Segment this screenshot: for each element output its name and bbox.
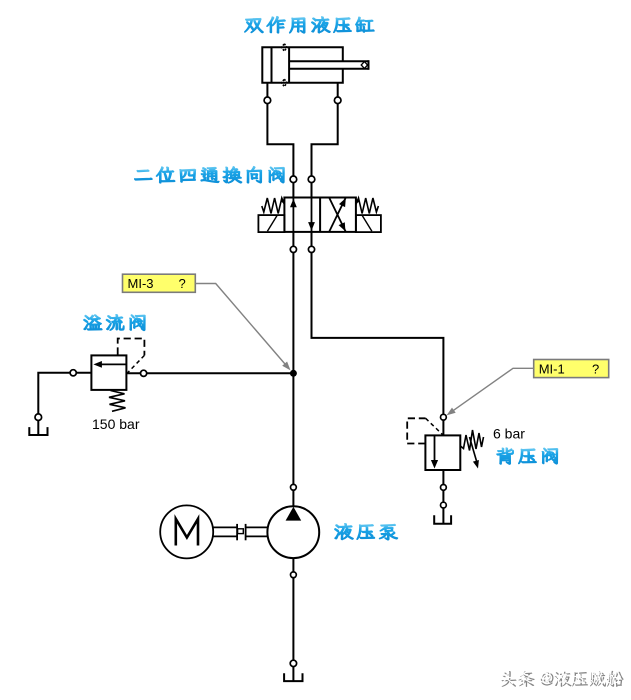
MI-1 measurement callout box <box>534 360 609 378</box>
wire: cylinder left port to valve port A <box>267 83 293 198</box>
wire: relief valve inlet from junction <box>126 372 293 374</box>
valve left position: parallel arrows <box>292 198 294 232</box>
relief valve pilot line (dashed) <box>118 339 145 356</box>
back-pressure pilot line (dashed) <box>407 418 425 443</box>
label: back-pressure valve 背压阀 <box>497 448 558 465</box>
cylinder anchor diamond top <box>282 44 287 51</box>
cylinder rod end diamond <box>361 62 367 69</box>
wire: relief valve outlet to tank <box>38 373 91 435</box>
label: relief valve 溢流阀 <box>84 314 146 330</box>
pump: hydraulic pump circle <box>267 506 319 558</box>
port circle back-pressure outlet <box>441 485 447 491</box>
port circle back-pressure inlet <box>441 414 447 420</box>
port circle relief right <box>141 370 147 376</box>
tank symbol left <box>29 427 47 435</box>
port circle pump inlet top <box>291 484 297 490</box>
port circle tank left <box>35 414 42 421</box>
svg-text:?: ? <box>179 276 186 291</box>
MI-1 leader line <box>450 368 534 413</box>
port circle valve A <box>290 176 297 183</box>
svg-text:150 bar: 150 bar <box>92 416 140 432</box>
shaft coupling motor-pump <box>213 524 267 540</box>
svg-text:MI-1: MI-1 <box>539 361 565 376</box>
valve right return spring <box>356 198 379 214</box>
port circle cylinder left <box>264 97 271 104</box>
port circle valve P <box>290 246 296 252</box>
pump flow triangle <box>286 507 302 521</box>
port circle tank bottom <box>290 660 296 666</box>
relief valve flow arrow <box>98 363 126 365</box>
tank symbol bottom <box>284 673 302 681</box>
wire: cylinder right port to valve port B <box>312 83 338 198</box>
wire: into back-pressure valve <box>442 420 444 435</box>
MI-3 leader line <box>195 284 288 368</box>
label: pump 液压泵 <box>335 523 398 540</box>
port circle relief left <box>70 370 76 376</box>
back-pressure valve spring <box>460 430 483 451</box>
motor letter M <box>176 519 198 546</box>
cylinder: double-acting hydraulic cylinder <box>262 47 368 83</box>
valve left solenoid box <box>258 215 284 232</box>
cylinder anchor diamond bottom <box>282 79 287 86</box>
valve: 4/2 directional valve body <box>284 198 356 232</box>
port circle valve B <box>308 176 315 183</box>
port circle cylinder right <box>334 97 341 104</box>
svg-text:6 bar: 6 bar <box>493 426 525 442</box>
port circle tank right <box>441 502 447 508</box>
port circle valve T <box>308 246 314 252</box>
wire: valve P port down to pump <box>292 232 294 507</box>
svg-text:MI-3: MI-3 <box>128 276 154 291</box>
valve right solenoid box <box>356 215 381 232</box>
svg-text:?: ? <box>592 361 599 376</box>
wire: back-pressure outlet to tank <box>442 470 444 524</box>
MI-3 measurement callout box <box>123 274 196 292</box>
back-pressure spring adjust arrow <box>470 437 477 461</box>
label: valve title 二位四通换向阀 <box>135 166 285 183</box>
valve left return spring <box>262 198 285 214</box>
back-pressure valve body <box>425 435 460 470</box>
label: cylinder title 双作用液压缸 <box>245 16 375 33</box>
back-pressure valve flow arrow <box>434 435 436 463</box>
port circle pump suction <box>291 572 297 578</box>
tank symbol right <box>434 515 451 524</box>
valve right position: crossed arrows <box>329 198 346 232</box>
wire: valve T port to back-pressure valve <box>312 232 444 414</box>
motor: electric motor circle <box>160 505 213 558</box>
watermark 头条@液压贼船 <box>502 671 624 687</box>
relief valve body <box>91 355 126 390</box>
wire: pump suction down to tank <box>292 558 294 681</box>
junction node on P line <box>290 370 297 377</box>
relief valve spring <box>109 391 126 412</box>
